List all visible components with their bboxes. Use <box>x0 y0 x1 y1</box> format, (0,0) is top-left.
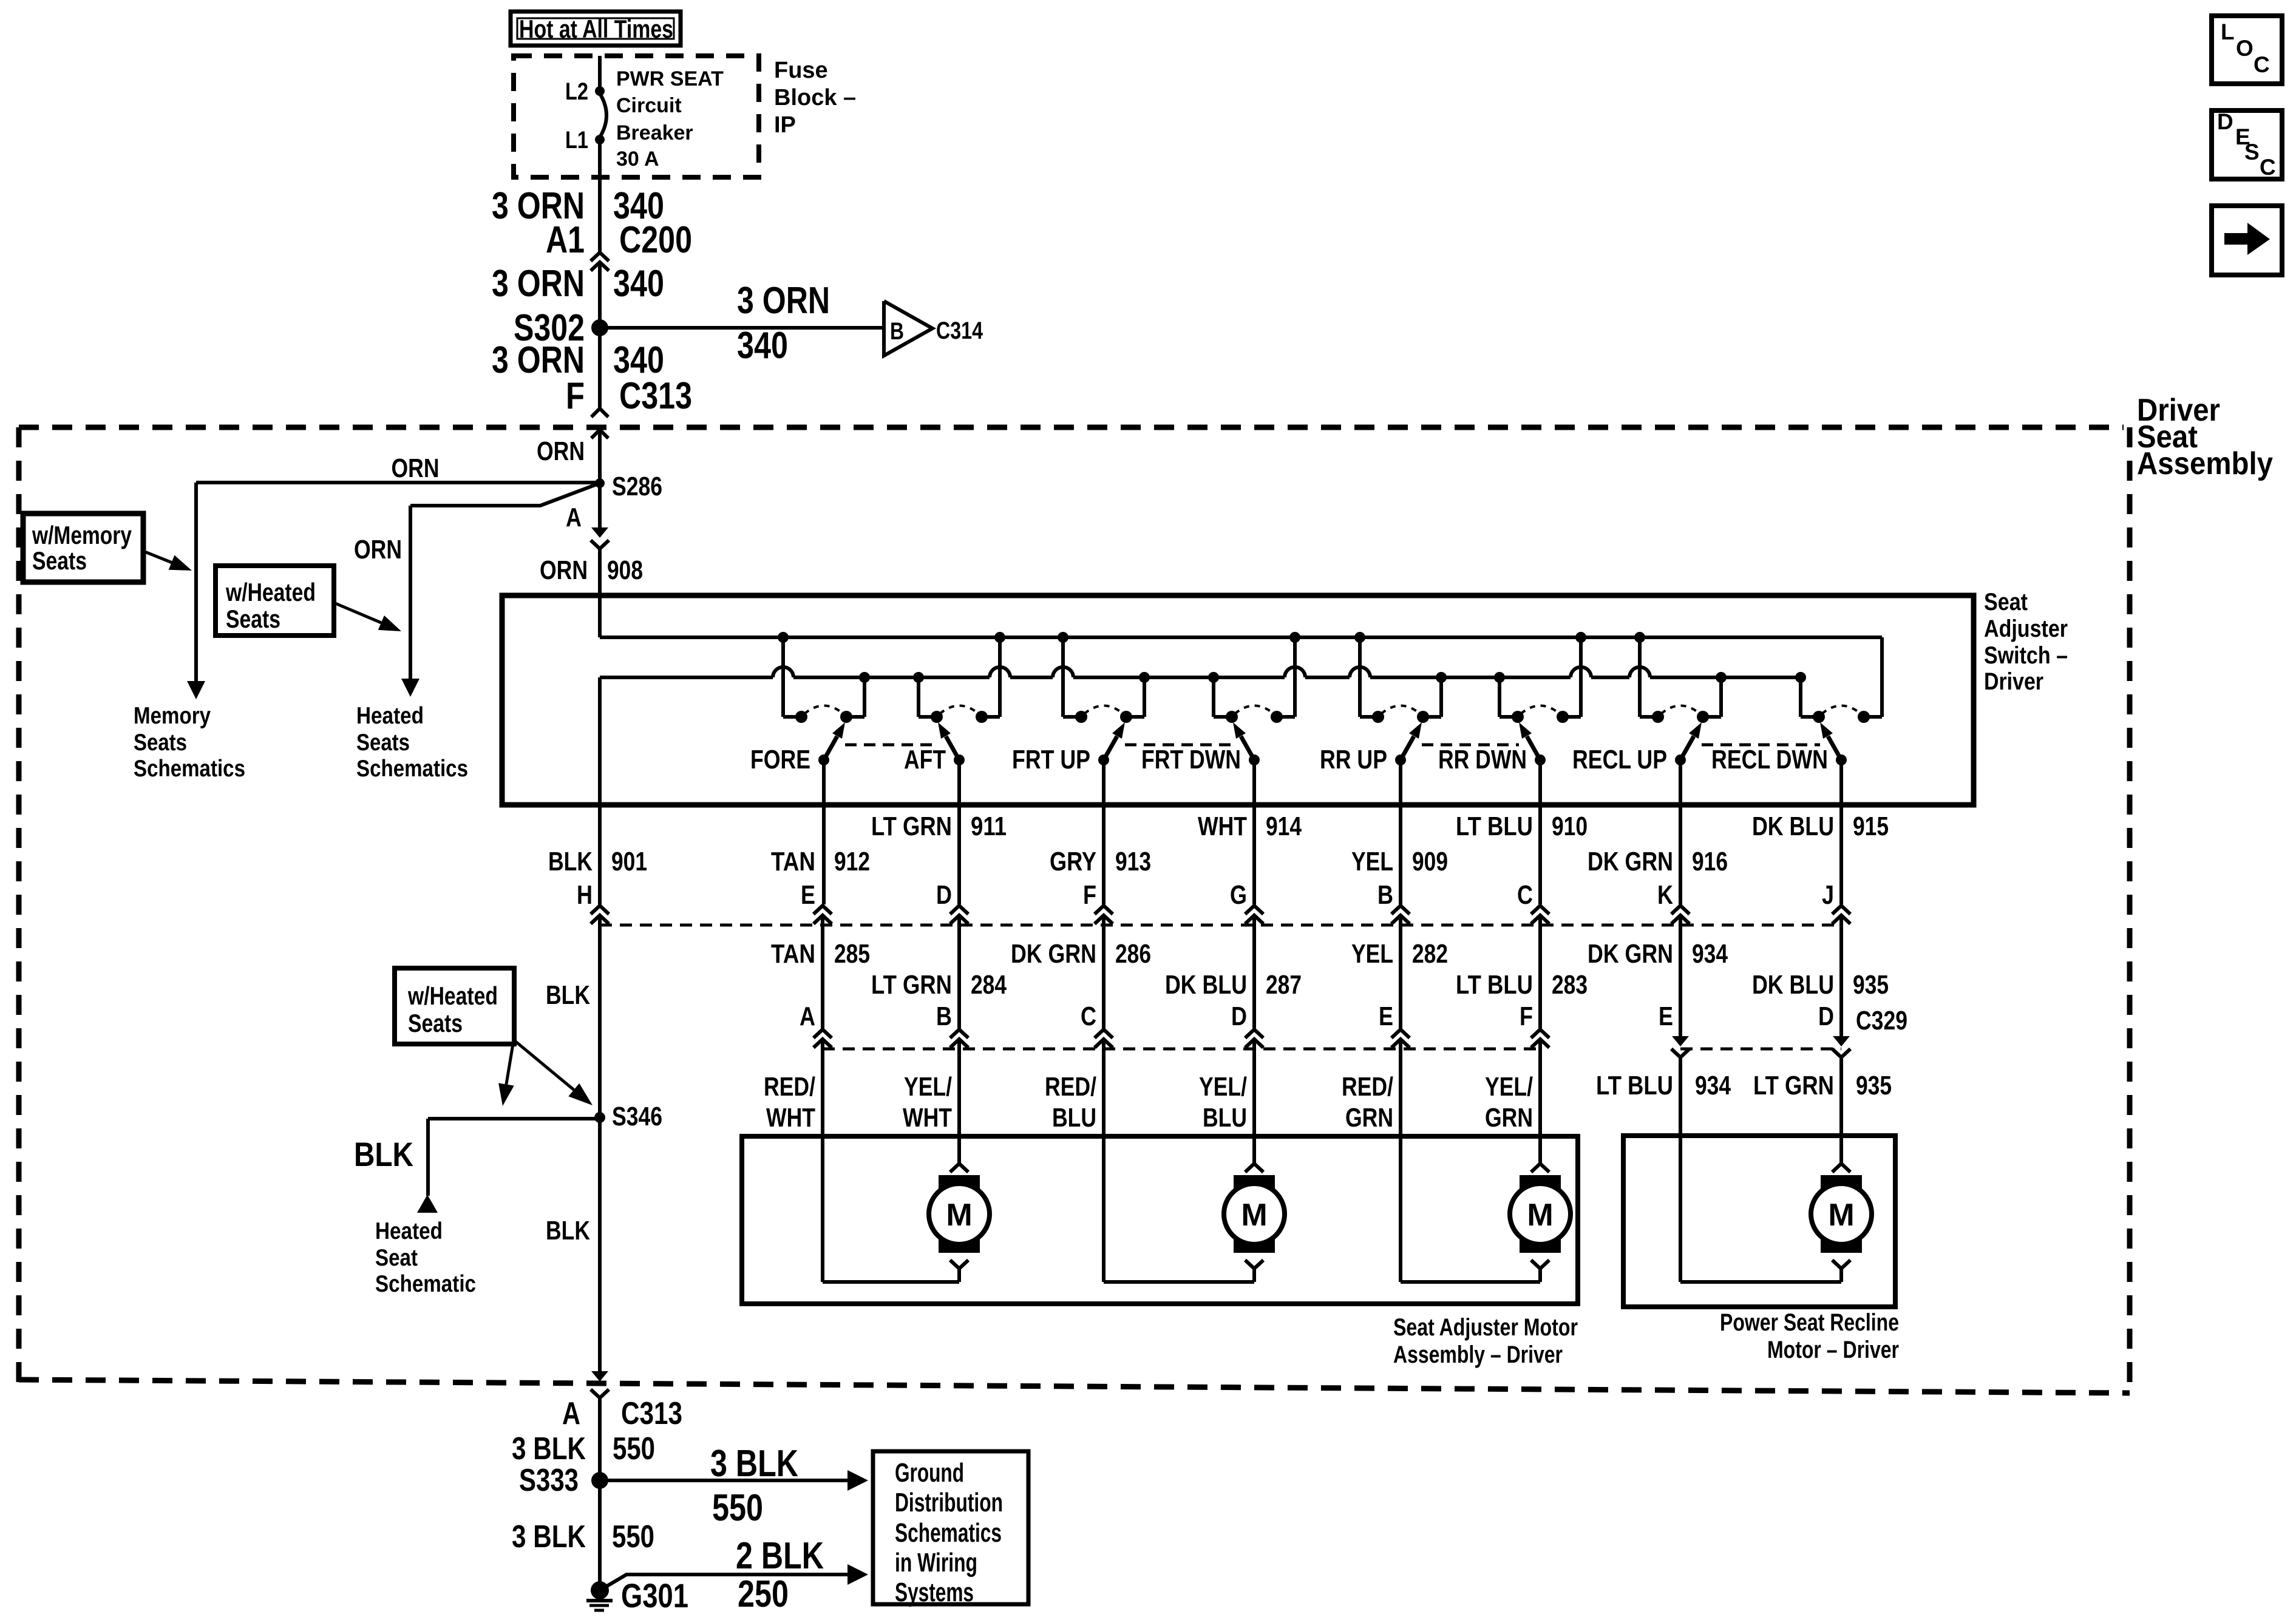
in-line connector at pin G <box>1245 906 1263 914</box>
pointer arrow from w/Heated Seats to ground branch <box>506 1044 513 1084</box>
svg-text:A: A <box>566 503 582 532</box>
wire: border to S333 <box>598 1398 602 1480</box>
switch pole RECL UP: contacts and feed/ground drops <box>1634 632 1645 643</box>
svg-text:3 BLK: 3 BLK <box>512 1431 586 1466</box>
svg-text:YEL/: YEL/ <box>1485 1072 1533 1102</box>
svg-text:L: L <box>2221 19 2235 44</box>
svg-text:Driver: Driver <box>1984 668 2043 695</box>
svg-text:L2: L2 <box>565 78 588 105</box>
seat fore/aft motor M1 <box>950 1164 968 1172</box>
splice S333 junction dot <box>591 1472 608 1489</box>
svg-text:C: C <box>2254 52 2270 77</box>
wire segment to C329-level connector <box>1252 927 1256 1028</box>
mechanical link dashed line RR UP-RR DWN <box>1422 744 1519 747</box>
in-line connector at pin E <box>813 906 832 914</box>
option box w/Memory Seats <box>23 514 143 582</box>
wire: S286 to connector A <box>598 483 602 529</box>
switch pole RECL DWN: contacts and feed/ground drops <box>1795 672 1806 683</box>
wire segment to connector C329 <box>1679 927 1682 1028</box>
wire: S302 down to C313 <box>598 328 602 408</box>
svg-text:Hot at All Times: Hot at All Times <box>519 15 673 43</box>
svg-text:914: 914 <box>1266 812 1302 841</box>
svg-text:LT GRN: LT GRN <box>1753 1071 1834 1100</box>
svg-text:C313: C313 <box>621 1396 682 1431</box>
svg-text:Adjuster: Adjuster <box>1984 615 2068 642</box>
svg-text:L1: L1 <box>565 127 588 154</box>
svg-text:BLK: BLK <box>546 1216 590 1246</box>
in-line connector at pin D <box>950 906 968 914</box>
svg-text:340: 340 <box>613 263 664 305</box>
switch pole RECL DWN: dashed rest-contact arc <box>1822 706 1861 714</box>
wire: S346 branch to heated seat schematic <box>428 1117 600 1120</box>
option box w/Heated Seats (lower) <box>395 968 514 1044</box>
switch pole FORE: wiper arrow <box>818 754 829 765</box>
svg-text:O: O <box>2236 36 2254 61</box>
mechanical link dashed line FORE-AFT <box>845 744 938 747</box>
wire: RECL DWN wiper output <box>1839 760 1843 904</box>
svg-text:935: 935 <box>1853 970 1889 1000</box>
legend box with arrow icon <box>2212 206 2282 275</box>
svg-text:3 ORN: 3 ORN <box>737 280 830 322</box>
svg-text:G301: G301 <box>621 1576 688 1615</box>
note box Ground Distribution Schematics in Wiring Systems <box>873 1451 1028 1604</box>
svg-text:TAN: TAN <box>771 939 815 969</box>
svg-text:909: 909 <box>1412 847 1448 876</box>
in-line connector at pin J <box>1832 906 1850 914</box>
Driver Seat Assembly dashed enclosure <box>19 425 2124 430</box>
svg-text:915: 915 <box>1853 812 1889 841</box>
in-line connector row (switch harness) dashed mating line <box>600 924 1841 927</box>
seat adjuster motor assembly box <box>742 1136 1578 1304</box>
svg-text:RR UP: RR UP <box>1320 745 1387 775</box>
wire: FRT DWN wiper output <box>1252 760 1256 904</box>
svg-text:908: 908 <box>607 555 643 585</box>
svg-text:S: S <box>2244 140 2260 164</box>
svg-text:F: F <box>566 375 585 417</box>
power seat recline motor M4 <box>1832 1164 1850 1172</box>
svg-text:YEL: YEL <box>1351 939 1393 969</box>
svg-text:WHT: WHT <box>766 1103 815 1133</box>
in-line connector row 2 at pin D <box>1245 1029 1263 1038</box>
power source label box: Hot at All Times <box>511 12 681 46</box>
svg-text:Switch –: Switch – <box>1984 642 2068 669</box>
switch pole RR DWN: contacts and feed/ground drops <box>1494 672 1505 683</box>
splice S346 junction dot <box>594 1112 605 1123</box>
switch pole AFT: wiper arrow <box>954 754 965 765</box>
svg-text:Heated: Heated <box>375 1218 443 1244</box>
svg-text:Assembly: Assembly <box>2137 446 2273 481</box>
switch pole AFT: dashed rest-contact arc <box>940 706 979 714</box>
svg-text:K: K <box>1657 880 1673 910</box>
svg-text:285: 285 <box>834 939 870 969</box>
svg-text:B: B <box>1377 880 1393 910</box>
switch pole FRT DWN: contacts and feed/ground drops <box>1208 672 1219 683</box>
svg-text:Seat: Seat <box>1984 589 2028 615</box>
svg-text:LT GRN: LT GRN <box>871 812 952 841</box>
svg-text:550: 550 <box>613 1431 655 1466</box>
wire segment to C329-level connector <box>957 927 961 1028</box>
svg-text:934: 934 <box>1692 939 1728 969</box>
svg-text:30 A: 30 A <box>616 147 659 171</box>
svg-text:LT BLU: LT BLU <box>1456 812 1533 841</box>
terminal triangle to ground distribution (3 BLK 550) <box>847 1470 868 1491</box>
legend box LOC <box>2212 16 2282 84</box>
svg-text:Fuse: Fuse <box>774 58 828 83</box>
switch pole FORE: dashed rest-contact arc <box>804 706 843 714</box>
wire: battery feed into circuit breaker <box>598 56 602 92</box>
svg-text:D: D <box>936 880 952 910</box>
ground symbol G301 <box>586 1599 613 1602</box>
wire: S302 branch to C314 <box>600 326 884 330</box>
svg-text:BLU: BLU <box>1203 1103 1247 1133</box>
svg-text:911: 911 <box>971 812 1007 841</box>
connector C200 in-line symbol <box>591 253 609 261</box>
svg-text:FORE: FORE <box>750 745 810 775</box>
switch pole FRT UP: wiper arrow <box>1098 754 1109 765</box>
svg-text:Ground: Ground <box>895 1458 964 1488</box>
svg-text:Distribution: Distribution <box>895 1488 1003 1517</box>
svg-text:ORN: ORN <box>392 453 440 483</box>
svg-text:Memory: Memory <box>134 703 211 729</box>
in-line connector row 2 at pin E <box>1391 1029 1410 1038</box>
svg-text:BLK: BLK <box>354 1135 413 1173</box>
in-line connector at pin A <box>591 527 608 538</box>
svg-text:Assembly – Driver: Assembly – Driver <box>1393 1341 1563 1368</box>
svg-text:935: 935 <box>1856 1071 1892 1100</box>
svg-text:Schematics: Schematics <box>356 756 468 782</box>
splice S286 junction dot <box>595 478 605 488</box>
svg-text:w/Heated: w/Heated <box>407 981 498 1010</box>
connector C313 in-line symbol at assembly border <box>591 408 608 417</box>
svg-text:DK GRN: DK GRN <box>1011 939 1096 969</box>
svg-text:RED/: RED/ <box>1045 1072 1096 1102</box>
switch pole FRT UP: dashed rest-contact arc <box>1084 706 1123 714</box>
svg-text:D: D <box>1818 1002 1834 1031</box>
switch pole RR UP: dashed rest-contact arc <box>1381 706 1420 714</box>
svg-text:GRN: GRN <box>1485 1103 1533 1133</box>
terminal triangle to ground distribution (2 BLK 250) <box>847 1564 868 1585</box>
svg-text:F: F <box>1520 1002 1533 1031</box>
svg-text:C: C <box>1517 880 1533 910</box>
svg-text:AFT: AFT <box>904 745 946 775</box>
svg-text:ORN: ORN <box>537 436 585 466</box>
svg-text:Breaker: Breaker <box>616 121 693 144</box>
wire: S333 down to G301 <box>598 1480 602 1590</box>
svg-text:340: 340 <box>737 325 788 367</box>
wire segment to connector C329 <box>1839 927 1843 1028</box>
in-line connector C329 at pin E <box>1672 1036 1689 1046</box>
svg-text:ORN: ORN <box>540 555 588 585</box>
svg-text:Seats: Seats <box>32 546 87 575</box>
switch pole RECL UP: wiper arrow <box>1675 754 1686 765</box>
switch feed bus (upper) <box>600 636 1882 639</box>
wire: FORE wiper output <box>822 760 826 904</box>
pointer arrow from w/Memory Seats box <box>143 551 172 563</box>
svg-text:B: B <box>936 1002 952 1031</box>
wire: RR UP wiper output <box>1399 760 1402 904</box>
svg-text:in Wiring: in Wiring <box>895 1548 977 1578</box>
in-line connector row 2 at pin F <box>1531 1029 1549 1038</box>
rear height motor M3 <box>1531 1164 1549 1172</box>
svg-text:H: H <box>577 880 593 910</box>
circuit breaker CB1 PWR SEAT 30A: terminals and arc <box>595 86 605 96</box>
wire: RR DWN wiper output <box>1538 760 1542 904</box>
switch pole FRT DWN: wiper arrow <box>1249 754 1260 765</box>
mechanical link dashed line RECL UP-RECL DWN <box>1702 744 1820 747</box>
in-line connector row 2 dashed mating line <box>823 1048 1540 1051</box>
svg-text:Seats: Seats <box>356 730 410 756</box>
wire: recline motor return loop <box>1680 1280 1841 1284</box>
svg-text:Seat: Seat <box>375 1245 418 1271</box>
switch pole FRT DWN: dashed rest-contact arc <box>1235 706 1274 714</box>
wire: RECL UP wiper output <box>1679 760 1682 904</box>
svg-text:Seat Adjuster Motor: Seat Adjuster Motor <box>1393 1314 1578 1341</box>
svg-text:E: E <box>1659 1002 1673 1031</box>
svg-text:IP: IP <box>774 112 796 138</box>
wire: rear height motor M3 return loop <box>1401 1280 1540 1284</box>
connector C314 triangle with pin B <box>884 301 932 356</box>
svg-text:M: M <box>1241 1198 1267 1233</box>
svg-text:E: E <box>1379 1002 1393 1031</box>
svg-text:w/Memory: w/Memory <box>32 521 132 549</box>
svg-text:2 BLK: 2 BLK <box>736 1535 824 1577</box>
switch pole RR DWN: dashed rest-contact arc <box>1521 706 1560 714</box>
wire segment to C329-level connector <box>1538 927 1542 1028</box>
svg-text:Seats: Seats <box>408 1009 463 1037</box>
svg-text:D: D <box>2217 109 2233 134</box>
svg-text:C313: C313 <box>619 375 692 417</box>
switch pole RR UP: wiper arrow <box>1395 754 1406 765</box>
wire segment to C329-level connector <box>821 927 824 1028</box>
svg-text:GRN: GRN <box>1345 1103 1393 1133</box>
svg-text:283: 283 <box>1552 970 1588 1000</box>
in-line connector at pin K <box>1671 906 1690 914</box>
svg-text:C314: C314 <box>936 317 983 344</box>
wire: feed into recline motor M4 <box>1839 1059 1843 1164</box>
svg-text:Schematics: Schematics <box>895 1518 1002 1548</box>
wire segment to C329-level connector <box>1399 927 1402 1028</box>
seat adjuster switch S4 outline box <box>502 595 1974 805</box>
svg-text:284: 284 <box>971 970 1007 1000</box>
svg-text:Block –: Block – <box>774 85 856 110</box>
svg-text:YEL: YEL <box>1351 847 1393 876</box>
wire: ground bus exit to BLK <box>598 677 602 805</box>
in-line connector row 2 at pin C <box>1095 1029 1113 1038</box>
svg-text:3 BLK: 3 BLK <box>710 1443 798 1485</box>
svg-text:BLK: BLK <box>546 980 590 1010</box>
svg-text:250: 250 <box>738 1573 789 1615</box>
svg-text:550: 550 <box>612 1519 654 1554</box>
svg-text:RECL DWN: RECL DWN <box>1711 745 1828 775</box>
option box w/Heated Seats (upper) <box>216 566 334 636</box>
in-line connector at pin H <box>591 906 609 914</box>
svg-text:FRT DWN: FRT DWN <box>1141 745 1241 775</box>
svg-text:3 BLK: 3 BLK <box>512 1519 586 1554</box>
svg-text:Circuit: Circuit <box>616 94 682 117</box>
wire: feed into rear height motor M3 <box>1538 1051 1542 1164</box>
svg-text:DK BLU: DK BLU <box>1752 970 1834 1000</box>
svg-text:C: C <box>2260 155 2276 180</box>
in-line connector C329 at pin D <box>1833 1036 1850 1046</box>
svg-text:3 ORN: 3 ORN <box>492 263 585 305</box>
svg-text:RECL UP: RECL UP <box>1572 745 1667 775</box>
mechanical link dashed line FRT UP-FRT DWN <box>1125 744 1233 747</box>
svg-text:913: 913 <box>1115 847 1151 876</box>
svg-text:M: M <box>946 1198 972 1233</box>
in-line connector row 2 at pin B <box>950 1029 968 1038</box>
in-line connector row 2 at pin A <box>813 1029 832 1038</box>
power seat recline motor box <box>1623 1136 1895 1307</box>
switch pole RR DWN: wiper arrow <box>1535 754 1546 765</box>
svg-text:Seats: Seats <box>226 605 280 633</box>
svg-text:RR DWN: RR DWN <box>1438 745 1527 775</box>
svg-text:DK BLU: DK BLU <box>1752 812 1834 841</box>
wire: FRT UP wiper output <box>1102 760 1106 904</box>
svg-text:Systems: Systems <box>895 1578 974 1607</box>
svg-text:912: 912 <box>834 847 870 876</box>
wire: C200 to S302 <box>598 272 602 328</box>
svg-text:A: A <box>562 1396 580 1431</box>
wire segment to C329-level connector <box>1102 927 1106 1028</box>
svg-text:B: B <box>890 318 904 345</box>
svg-text:WHT: WHT <box>903 1103 952 1133</box>
svg-text:RED/: RED/ <box>764 1072 815 1102</box>
switch pole AFT: contacts and feed/ground drops <box>913 672 924 683</box>
svg-text:A: A <box>800 1002 815 1031</box>
arrow to heated seats schematics <box>401 679 419 697</box>
switch pole RR UP: contacts and feed/ground drops <box>1354 632 1365 643</box>
svg-text:C329: C329 <box>1856 1006 1907 1036</box>
svg-text:PWR SEAT: PWR SEAT <box>616 67 724 90</box>
svg-text:282: 282 <box>1412 939 1448 969</box>
wire: feed into front height motor M2 <box>1252 1051 1256 1164</box>
wire: S346 down to assembly border <box>598 1117 602 1371</box>
ground G301 junction dot <box>591 1581 609 1599</box>
svg-text:TAN: TAN <box>771 847 815 876</box>
svg-text:D: D <box>1231 1002 1247 1031</box>
svg-text:901: 901 <box>611 847 647 876</box>
svg-text:DK GRN: DK GRN <box>1588 847 1673 876</box>
splice S302 junction dot <box>591 319 608 336</box>
svg-text:C: C <box>1081 1002 1096 1031</box>
svg-text:Heated: Heated <box>356 703 424 729</box>
wire: S286 branch to memory seats schematics <box>196 481 600 484</box>
front height motor M2 <box>1245 1164 1263 1172</box>
svg-text:Schematics: Schematics <box>134 756 245 782</box>
svg-text:DK GRN: DK GRN <box>1588 939 1673 969</box>
svg-text:287: 287 <box>1266 970 1302 1000</box>
svg-text:Motor – Driver: Motor – Driver <box>1767 1337 1899 1363</box>
arrow to memory seats schematics <box>187 681 205 699</box>
switch ground bus (lower) with hops <box>600 676 773 679</box>
wire: BLK ground from switch to S346 <box>598 805 602 904</box>
svg-text:DK BLU: DK BLU <box>1165 970 1247 1000</box>
svg-text:E: E <box>801 880 815 910</box>
svg-text:934: 934 <box>1695 1071 1731 1100</box>
connector C329 dashed mating line <box>1680 1048 1841 1051</box>
in-line connector at pin B <box>1391 906 1410 914</box>
wire: S333 to ground distribution <box>600 1479 847 1482</box>
svg-text:YEL/: YEL/ <box>904 1072 952 1102</box>
svg-text:YEL/: YEL/ <box>1199 1072 1247 1102</box>
svg-text:910: 910 <box>1552 812 1588 841</box>
svg-text:w/Heated: w/Heated <box>225 578 316 606</box>
svg-text:M: M <box>1828 1198 1854 1233</box>
svg-text:550: 550 <box>712 1487 763 1529</box>
wire: AFT wiper output <box>957 760 961 904</box>
svg-text:RED/: RED/ <box>1342 1072 1393 1102</box>
terminal triangle to heated seat schematic <box>417 1195 438 1213</box>
svg-text:M: M <box>1527 1198 1553 1233</box>
svg-text:WHT: WHT <box>1198 812 1247 841</box>
svg-text:BLU: BLU <box>1052 1103 1096 1133</box>
wire: breaker output down to C200 <box>598 140 602 251</box>
svg-text:BLK: BLK <box>548 847 593 876</box>
wire: seat fore/aft motor M1 return loop <box>823 1280 959 1284</box>
svg-text:C200: C200 <box>619 219 692 261</box>
svg-text:LT BLU: LT BLU <box>1596 1071 1673 1100</box>
svg-text:S346: S346 <box>612 1102 662 1131</box>
wire: front height motor M2 return loop <box>1104 1280 1254 1284</box>
pointer arrow from w/Heated Seats box (upper) <box>334 603 381 623</box>
fuse block dashed box <box>514 56 759 177</box>
svg-text:S333: S333 <box>519 1463 579 1498</box>
svg-text:LT GRN: LT GRN <box>871 970 952 1000</box>
wire: feed into seat fore/aft motor M1 <box>957 1051 961 1164</box>
svg-text:Seats: Seats <box>134 730 187 756</box>
pointer arrow from w/Heated Seats to S346 <box>514 1040 574 1090</box>
in-line connector at pin C <box>1531 906 1549 914</box>
svg-text:F: F <box>1083 880 1096 910</box>
in-line connector at pin F <box>1095 906 1113 914</box>
svg-text:Power Seat Recline: Power Seat Recline <box>1720 1309 1899 1336</box>
switch pole FORE: contacts and feed/ground drops <box>778 632 789 643</box>
svg-text:GRY: GRY <box>1050 847 1096 876</box>
wire: BLK to S346 <box>598 919 602 1117</box>
wire: ORN feed into switch to upper bus <box>598 595 602 637</box>
svg-text:J: J <box>1822 880 1834 910</box>
svg-text:A1: A1 <box>546 219 585 261</box>
svg-text:S286: S286 <box>612 472 662 501</box>
switch pole FRT UP: contacts and feed/ground drops <box>1058 632 1068 643</box>
svg-text:FRT UP: FRT UP <box>1012 745 1090 775</box>
svg-text:916: 916 <box>1692 847 1728 876</box>
wire: connector A down to switch <box>598 548 602 595</box>
svg-text:G: G <box>1230 880 1247 910</box>
svg-text:286: 286 <box>1115 939 1151 969</box>
switch pole RECL UP: dashed rest-contact arc <box>1661 706 1700 714</box>
wire: S286 branch to heated seats schematics <box>410 483 600 506</box>
legend box DESC <box>2212 110 2282 179</box>
in-line connector at assembly border (C313 pin A) <box>591 1371 608 1381</box>
switch pole RECL DWN: wiper arrow <box>1836 754 1847 765</box>
svg-text:LT BLU: LT BLU <box>1456 970 1533 1000</box>
wire: G301 branch to ground distribution <box>600 1575 847 1590</box>
svg-text:ORN: ORN <box>354 535 402 564</box>
svg-text:Schematic: Schematic <box>375 1271 476 1297</box>
